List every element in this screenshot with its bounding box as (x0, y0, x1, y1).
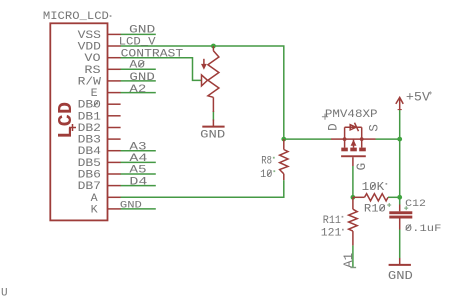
svg-text:D4: D4 (129, 176, 147, 188)
svg-text:K: K (91, 204, 98, 216)
svg-text:A4: A4 (129, 153, 147, 165)
svg-text:VO: VO (84, 53, 101, 65)
svg-text:GND: GND (129, 25, 155, 37)
svg-text:R/W: R/W (78, 76, 102, 88)
svg-text:LCD: LCD (55, 102, 77, 139)
svg-text:10: 10 (260, 169, 272, 181)
svg-text:S: S (367, 124, 381, 132)
svg-text:E: E (91, 88, 98, 100)
svg-text:A1: A1 (342, 253, 356, 268)
svg-text:A2: A2 (129, 84, 146, 96)
svg-text:DB6: DB6 (78, 170, 101, 182)
svg-text:A0: A0 (129, 60, 145, 72)
svg-text:DB2: DB2 (78, 123, 101, 135)
svg-text:DB4: DB4 (78, 146, 102, 158)
svg-text:R11: R11 (323, 215, 342, 227)
svg-text:VSS: VSS (78, 30, 102, 42)
svg-text:A5: A5 (129, 165, 146, 177)
svg-text:MICRO_LCD: MICRO_LCD (43, 11, 109, 23)
svg-text:GND: GND (200, 130, 225, 142)
svg-text:RS: RS (84, 65, 101, 77)
svg-text:GND: GND (120, 201, 142, 212)
svg-text:+5V: +5V (406, 89, 431, 104)
svg-text:PMV48XP: PMV48XP (325, 109, 378, 121)
svg-text:DB3: DB3 (78, 135, 101, 147)
svg-text:CONTRAST: CONTRAST (121, 48, 184, 60)
svg-text:U: U (1, 288, 8, 300)
svg-text:DB1: DB1 (78, 111, 102, 123)
svg-text:VDD: VDD (78, 42, 102, 54)
svg-text:A: A (91, 193, 98, 205)
svg-text:GND: GND (129, 72, 154, 84)
svg-text:121: 121 (321, 228, 342, 240)
svg-text:LCD_V: LCD_V (119, 36, 156, 48)
svg-text:DB7: DB7 (78, 181, 101, 193)
svg-text:R8: R8 (261, 156, 272, 168)
svg-text:G: G (355, 163, 369, 171)
svg-text:R10: R10 (364, 204, 386, 216)
svg-text:A3: A3 (129, 141, 146, 153)
svg-text:D: D (326, 123, 340, 131)
svg-text:10K: 10K (362, 181, 385, 194)
svg-text:DB5: DB5 (78, 158, 101, 170)
svg-text:C12: C12 (405, 199, 426, 210)
svg-text:GND: GND (388, 270, 413, 283)
